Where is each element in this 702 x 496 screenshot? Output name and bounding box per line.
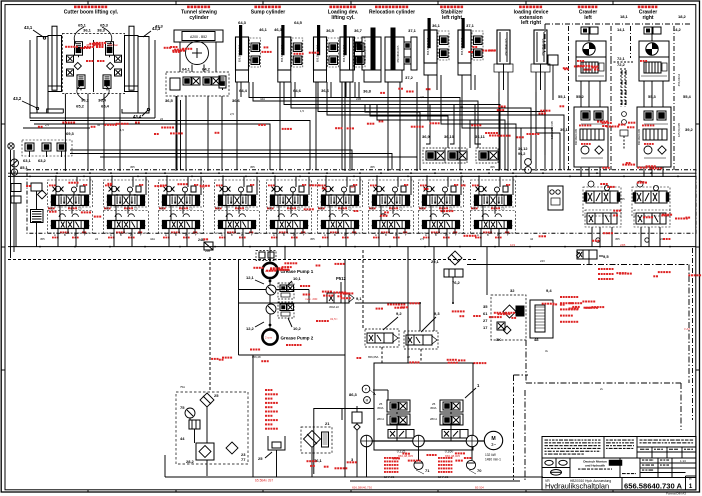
svg-text:455: 455 — [370, 206, 375, 210]
pump shaft line — [371, 440, 486, 442]
svg-text:656,58640,005: 656,58640,005 — [397, 45, 400, 62]
pilot unit between band rows near x 556 — [548, 186, 563, 210]
suction strainer 70 — [466, 460, 482, 474]
red marks valve section 7 — [369, 184, 408, 238]
cylinder: sump cylinder right (46,3) — [278, 25, 303, 82]
svg-text:55,2: 55,2 — [576, 94, 585, 99]
wires loading lifting group — [318, 82, 359, 97]
svg-text:455: 455 — [216, 206, 221, 210]
red marks valve section 2 — [104, 184, 143, 238]
svg-text:64,2: 64,2 — [202, 67, 211, 72]
filter unit enclosure — [314, 409, 374, 475]
svg-text:24B: 24B — [356, 97, 361, 101]
wires valve section 7 — [376, 172, 412, 246]
hydraulic motor: crawler right — [639, 27, 669, 57]
label 43,2 with leader — [13, 96, 39, 110]
labels crawler: 55,1 55,2 55,3 55,4 — [558, 94, 692, 99]
svg-text:2 rpm: 2 rpm — [265, 336, 273, 340]
pump element 12,1 — [246, 275, 276, 295]
drain stubs under crawler band modules — [592, 227, 660, 247]
svg-text:1:13: 1:13 — [680, 459, 686, 463]
svg-text:A: A — [110, 233, 112, 237]
shuttle valves 72 between crawlers — [610, 62, 633, 107]
svg-text:36,7: 36,7 — [354, 28, 363, 33]
wire: cutter boom drop lines to valve bank — [65, 94, 120, 171]
valve package: cutter boom counterbalance valves (65,1/65,2/65,3/65,4) — [63, 33, 125, 93]
red rows under grease pump 2 — [250, 285, 329, 351]
crawler travel valve module right (top) — [632, 181, 670, 216]
metering valve 10,1 — [278, 276, 302, 299]
bus lines above main valve bank — [8, 172, 696, 177]
svg-text:2,5: 2,5 — [297, 206, 301, 210]
directional control valve section 1 (top row) — [48, 180, 93, 207]
labels crawler: 18,1 18,2 14,1 14,2 — [617, 14, 687, 32]
svg-text:1,5: 1,5 — [120, 128, 124, 132]
svg-text:455: 455 — [49, 206, 54, 210]
gear pump 2 — [413, 435, 425, 447]
drop line from filter 29,1 — [452, 277, 454, 304]
svg-text:left right: left right — [442, 15, 462, 21]
left vertical supply lines — [8, 143, 14, 258]
inlet element at left end of bank — [31, 183, 47, 247]
svg-text:2,5: 2,5 — [399, 206, 403, 210]
svg-text:280 A: 280 A — [430, 417, 437, 421]
red marks valve section 9 — [471, 184, 510, 238]
wires sump group — [241, 82, 295, 97]
pipe manifold under cutter boom cylinders — [30, 40, 155, 118]
tiny port labels valve section 1 — [49, 206, 86, 237]
svg-text:450A 22: 450A 22 — [329, 305, 339, 309]
label 43,4 — [133, 108, 150, 119]
hand pump 75 — [180, 405, 195, 418]
svg-text:A200 - B52: A200 - B52 — [190, 35, 207, 39]
svg-text:2,5: 2,5 — [501, 206, 505, 210]
svg-text:165,04/12,005: 165,04/12,005 — [550, 121, 554, 139]
svg-text:103: 103 — [510, 243, 515, 247]
gauge M circle — [11, 169, 17, 175]
svg-text:36,12: 36,12 — [518, 147, 528, 151]
group label: Loading dev. lifting cyl. — [328, 6, 359, 21]
label P512 and riser — [336, 276, 346, 293]
cylinder: stabilizer left (36,1) — [424, 18, 449, 75]
red marks valve section 1 — [48, 184, 87, 238]
title block frame — [542, 437, 696, 491]
label 65,1 / 36,1 / 65,3 / 36,3 — [78, 23, 109, 33]
directional control valve section 1 (bottom row) — [48, 211, 93, 234]
suction strainer 71 — [414, 460, 430, 474]
svg-text:656,05A: 656,05A — [368, 355, 379, 359]
svg-text:44: 44 — [180, 436, 185, 441]
svg-text:9,5: 9,5 — [603, 254, 609, 259]
svg-text:450A: 450A — [377, 406, 384, 410]
wires bottom-left cluster — [190, 407, 207, 476]
red marks valve section 5 — [267, 184, 306, 238]
svg-text:2,5: 2,5 — [449, 206, 453, 210]
label Grease Pump 2 — [281, 336, 314, 341]
group label: Crawler left — [578, 6, 598, 21]
wires valve section 4 — [222, 172, 258, 246]
labels sump bottom: 64,4 / 64,6 — [239, 88, 302, 93]
svg-text:35: 35 — [483, 304, 488, 309]
directional control valve section 9 (top row) — [471, 180, 516, 207]
svg-text:cylinder: cylinder — [189, 15, 208, 21]
svg-text:165,50,005: 165,50,005 — [677, 123, 681, 137]
travel control valve block crawler right (39) — [637, 107, 671, 167]
svg-text:24: 24 — [160, 117, 164, 121]
format note below frame — [666, 492, 686, 496]
svg-text:39,2: 39,2 — [685, 127, 694, 132]
svg-text:656,58640,005: 656,58640,005 — [505, 38, 508, 55]
wires valve section 6 — [325, 172, 361, 246]
svg-text:B5 504: B5 504 — [475, 486, 484, 490]
svg-text:36,8: 36,8 — [363, 89, 372, 94]
extra routing lines below groups — [237, 82, 342, 170]
brake valve block crawler left (55) — [576, 57, 606, 81]
title block VR row — [545, 479, 611, 483]
svg-text:72,1: 72,1 — [617, 56, 626, 61]
svg-text:2,5: 2,5 — [189, 206, 193, 210]
drain component 24B on bus — [198, 238, 213, 250]
svg-text:455 bar: 455 bar — [86, 43, 96, 47]
directional control valve section 6 (bottom row) — [318, 211, 363, 234]
svg-text:71: 71 — [425, 468, 430, 473]
svg-text:I>A7: I>A7 — [684, 327, 691, 331]
directional control valve section 3 (bottom row) — [159, 211, 204, 234]
svg-text:69,3: 69,3 — [66, 131, 75, 136]
svg-text:24V: 24V — [540, 259, 545, 263]
svg-text:1480 min-1: 1480 min-1 — [485, 458, 501, 462]
group label: Crawler right — [638, 6, 658, 21]
svg-text:24: 24 — [660, 237, 664, 241]
svg-text:B: B — [231, 233, 233, 237]
svg-text:85,1: 85,1 — [20, 165, 29, 170]
directional control valve section 5 (bottom row) — [267, 211, 312, 234]
svg-text:55,4: 55,4 — [683, 94, 692, 99]
svg-text:455: 455 — [200, 185, 205, 189]
red marks valve section 4 — [215, 184, 254, 238]
directional control valve section 8 (bottom row) — [419, 211, 464, 234]
svg-text:37,1: 37,1 — [466, 23, 475, 28]
cylinder: loading device extension right — [531, 30, 550, 90]
svg-text:B: B — [487, 233, 489, 237]
svg-text:46,3: 46,3 — [274, 27, 283, 32]
tiny port labels valve section 7 — [370, 206, 407, 237]
directional control valve section 5 (top row) — [267, 180, 312, 207]
group label: Sump cylinder — [251, 6, 286, 16]
red marks valve section 8 — [419, 184, 458, 238]
leader lines 9,2 9,3 — [383, 317, 436, 332]
svg-text:24B: 24B — [620, 243, 625, 247]
relief valve 36,9 — [422, 134, 445, 163]
svg-text:A: A — [273, 233, 275, 237]
svg-text:656,48,005: 656,48,005 — [398, 454, 413, 458]
svg-text:18,2: 18,2 — [678, 14, 687, 19]
svg-text:43,3: 43,3 — [155, 24, 164, 29]
svg-text:455: 455 — [105, 206, 110, 210]
bottom return bus line — [165, 355, 543, 483]
displacement labels 0,125 / 0,160 — [397, 450, 454, 454]
svg-text:455: 455 — [40, 237, 45, 241]
svg-text:right: right — [642, 15, 653, 21]
directional control valve section 7 (bottom row) — [369, 211, 414, 234]
svg-text:36,5: 36,5 — [165, 98, 174, 103]
gear pump 3 — [466, 435, 478, 447]
directional control valve section 8 (top row) — [419, 180, 464, 207]
relief valve 36,10 — [444, 134, 467, 163]
directional control valve section 4 (top row) — [215, 180, 260, 207]
svg-text:S5.5B4x JS7: S5.5B4x JS7 — [255, 479, 274, 483]
grease internal bus lines — [239, 278, 328, 330]
svg-text:656,04/12: 656,04/12 — [677, 73, 681, 86]
svg-text:B: B — [435, 233, 437, 237]
mid dash-dot boundary between crawler zones — [610, 26, 612, 170]
bus line below main valve bank — [8, 246, 696, 248]
svg-text:455: 455 — [420, 206, 425, 210]
svg-text:28: 28 — [407, 355, 411, 359]
accumulator 48 — [530, 300, 553, 338]
label Grease Pump 1 — [281, 269, 314, 274]
wires valve section 1 — [55, 172, 91, 246]
svg-text:9,1: 9,1 — [356, 296, 362, 301]
cylinder: cutter boom lifting cylinder left (43,1) — [37, 26, 62, 113]
valve stack A (25/450A,280A) — [377, 400, 410, 425]
svg-text:A: A — [477, 233, 479, 237]
cylinder: stabilizer right — [458, 18, 483, 75]
title block middle cells with logos — [542, 458, 696, 478]
svg-text:36,1: 36,1 — [432, 23, 441, 28]
svg-text:44A: 44A — [150, 237, 155, 241]
svg-text:24B: 24B — [205, 249, 210, 253]
svg-text:9,4: 9,4 — [546, 288, 552, 293]
zone boundary dash-dot lines around crawlers — [545, 24, 690, 170]
svg-text:A: A — [375, 233, 377, 237]
svg-text:37,1: 37,1 — [408, 28, 417, 33]
pressure reducing valves 63,1 63,2 69,3 — [22, 131, 75, 163]
svg-text:2,5: 2,5 — [45, 123, 49, 127]
svg-text:B: B — [385, 233, 387, 237]
solenoid valve 9,5 top right — [467, 250, 689, 383]
label 36,5 loading lifting — [321, 28, 335, 93]
svg-text:36,6: 36,6 — [232, 98, 241, 103]
svg-text:455: 455 — [250, 165, 255, 169]
labels relocation: 36,7 37,1 36,8 37,2 — [354, 28, 417, 94]
group label: Relocation cylinder — [369, 6, 415, 16]
svg-text:Bl.: Bl. — [689, 477, 692, 481]
extra red annotation rows right of accumulator block — [560, 268, 614, 323]
svg-text:280 A: 280 A — [377, 417, 384, 421]
risers from bus to power pack — [382, 247, 487, 363]
cylinder: cutter boom lifting cylinder right (43,3) — [125, 26, 150, 113]
label 1 pointer — [465, 383, 480, 398]
svg-text:450A: 450A — [430, 406, 437, 410]
grease box risers to bus — [270, 247, 285, 263]
pump control spool 2 — [442, 430, 468, 439]
svg-text:64,5: 64,5 — [294, 20, 303, 25]
svg-text:2,5: 2,5 — [420, 237, 424, 241]
label 36,5 left / 36,6 right — [165, 98, 241, 103]
label 36,2 / 65,2 / 36,4 / 65,4 — [76, 98, 110, 109]
wires crawler left — [581, 81, 600, 177]
label 43,3 near slewing — [155, 24, 164, 29]
directional control valve section 9 (bottom row) — [471, 211, 516, 234]
cylinder: loading device lifting cyl right — [340, 25, 365, 82]
svg-text:3~: 3~ — [491, 442, 496, 447]
svg-text:55,3: 55,3 — [648, 94, 657, 99]
svg-text:37,2: 37,2 — [405, 75, 414, 80]
dash-dot boundary bottom right — [526, 340, 681, 430]
svg-text:A: A — [425, 233, 427, 237]
svg-text:9,3: 9,3 — [434, 311, 440, 316]
svg-text:455: 455 — [615, 237, 620, 241]
dash-dot verticals right of motor — [514, 375, 529, 480]
directional control valve section 7 (top row) — [369, 180, 414, 207]
cylinder: loading device lifting cyl left — [314, 25, 339, 82]
label 43,3 top right — [143, 26, 161, 37]
svg-text:455: 455 — [310, 237, 315, 241]
group label: Cutter boom lifting cyl. — [64, 6, 119, 16]
svg-text:64,1: 64,1 — [182, 67, 191, 72]
travel control valve block crawler left (39) — [574, 107, 608, 167]
svg-text:27: 27 — [483, 318, 488, 323]
svg-text:24: 24 — [95, 237, 99, 241]
svg-text:B: B — [175, 233, 177, 237]
svg-text:70: 70 — [477, 468, 482, 473]
svg-text:656,58640,005: 656,58640,005 — [638, 128, 641, 145]
wires loading extension group — [499, 72, 545, 171]
svg-text:455: 455 — [620, 197, 625, 201]
svg-text:28,2: 28,2 — [186, 459, 195, 464]
svg-text:44: 44 — [460, 105, 464, 109]
valves 36,12 / 96,2 with gauge circles — [518, 147, 531, 173]
pump internal wires — [367, 386, 473, 477]
red numeric annotations — [86, 43, 691, 458]
wires tunnel slewing — [176, 42, 222, 171]
svg-text:36,11: 36,11 — [475, 134, 486, 139]
svg-text:P512: P512 — [336, 276, 346, 281]
svg-text:left right: left right — [521, 20, 541, 26]
directional control valve section 2 (top row) — [104, 180, 149, 207]
svg-text:A: A — [165, 233, 167, 237]
svg-text:0,160: 0,160 — [445, 450, 454, 454]
svg-text:P: P — [365, 388, 367, 392]
svg-text:12,1: 12,1 — [246, 275, 255, 280]
tiny port labels valve section 4 — [216, 206, 253, 237]
part number strip left of crawler — [548, 55, 558, 139]
svg-text:36,10: 36,10 — [444, 134, 455, 139]
cylinder: relocation cylinder right (37,1) — [385, 28, 417, 82]
svg-text:und Hydraulik: und Hydraulik — [585, 464, 605, 468]
svg-text:43,2: 43,2 — [13, 96, 22, 101]
crawler travel valve module left (bottom) — [585, 210, 621, 227]
gauges 86,3 (P and M) — [349, 385, 376, 403]
label 64,1 64,2 — [182, 67, 211, 72]
svg-text:M: M — [366, 399, 369, 403]
svg-text:25: 25 — [214, 393, 219, 398]
svg-text:lifting cyl.: lifting cyl. — [331, 15, 355, 21]
svg-text:A: A — [221, 233, 223, 237]
svg-text:455: 455 — [160, 206, 165, 210]
svg-text:61: 61 — [483, 311, 488, 316]
brake valve block crawler right (55) — [639, 57, 669, 81]
labels crawler: 39,1 39,2 72,1 72,2 — [560, 56, 694, 132]
svg-text:12,2: 12,2 — [246, 326, 255, 331]
svg-text:left: left — [584, 15, 592, 21]
crawler travel valve module right (bottom) — [634, 210, 670, 227]
staircase routing lines right half — [365, 92, 560, 170]
power pack enclosure — [374, 363, 473, 450]
pump element 12,2 — [246, 304, 276, 331]
svg-text:2,5: 2,5 — [230, 112, 234, 116]
filter 28,2 — [186, 443, 214, 464]
tiny port labels valve section 5 — [268, 206, 305, 237]
svg-text:36,5: 36,5 — [326, 28, 335, 33]
breather and level gauge on tank left — [351, 406, 362, 477]
wires crawler right — [644, 81, 663, 177]
svg-text:21: 21 — [325, 421, 330, 426]
pump control spool 1 — [388, 430, 414, 439]
svg-text:17: 17 — [483, 325, 488, 330]
svg-text:Relocation cylinder: Relocation cylinder — [369, 9, 415, 15]
drawing number 656.58640.730 A — [624, 482, 683, 491]
return filter 21 with bypass — [301, 421, 332, 477]
metering valve 10,2 — [278, 302, 302, 331]
svg-text:96,2: 96,2 — [518, 152, 525, 156]
solenoid valve 9,2 — [365, 311, 402, 347]
svg-text:2,5: 2,5 — [78, 206, 82, 210]
motor bell housing 25 — [258, 436, 285, 477]
cylinder: loading device extension left — [494, 30, 513, 90]
part number text right of crawler right — [677, 73, 681, 137]
svg-text:656,28: 656,28 — [252, 355, 261, 359]
svg-text:A: A — [324, 233, 326, 237]
svg-text:10,1: 10,1 — [293, 276, 302, 281]
black tiny reference numbers scatter — [40, 95, 664, 391]
svg-text:44A: 44A — [260, 97, 265, 101]
svg-text:75: 75 — [180, 405, 185, 410]
svg-text:44: 44 — [97, 123, 101, 127]
tiny port labels valve section 8 — [420, 206, 457, 237]
wires stabilizer group — [428, 75, 552, 170]
svg-text:2,5: 2,5 — [134, 206, 138, 210]
svg-text:B: B — [334, 233, 336, 237]
svg-text:64,4: 64,4 — [239, 88, 248, 93]
title text Hydraulikschaltplan — [545, 481, 609, 490]
svg-text:656,58640,730: 656,58640,730 — [352, 486, 372, 490]
svg-text:64,3: 64,3 — [238, 20, 247, 25]
svg-text:B: B — [283, 233, 285, 237]
svg-text:656,58640,005: 656,58640,005 — [364, 45, 367, 62]
svg-text:36,9: 36,9 — [422, 134, 431, 139]
tiny port labels valve section 2 — [105, 206, 142, 237]
dashed boundary left of grease area — [8, 250, 476, 390]
left edge elements of valve bank — [11, 184, 21, 247]
red part number at bottom bus — [352, 486, 484, 490]
valve block tunnel slewing (64,1 / 64,2) — [166, 72, 229, 96]
svg-text:2,5: 2,5 — [420, 95, 424, 99]
shuttle valve symbols between crawler blocks — [620, 112, 628, 150]
valve stack B (25/450A,280A) — [430, 400, 463, 425]
red spec text under pumps — [384, 457, 452, 473]
wires valve section 8 — [426, 172, 462, 246]
cylinder: relocation cylinder left (36,7) — [350, 28, 382, 82]
electric motor M 3~ — [484, 431, 502, 449]
group label: Tunnel slewing cylinder — [181, 6, 217, 21]
svg-text:36,6: 36,6 — [321, 88, 330, 93]
pilot line from 9,1 to solenoid valves — [329, 302, 421, 331]
svg-text:63,2: 63,2 — [38, 158, 47, 163]
wires valve section 3 — [166, 172, 202, 246]
svg-text:9,2: 9,2 — [396, 311, 402, 316]
